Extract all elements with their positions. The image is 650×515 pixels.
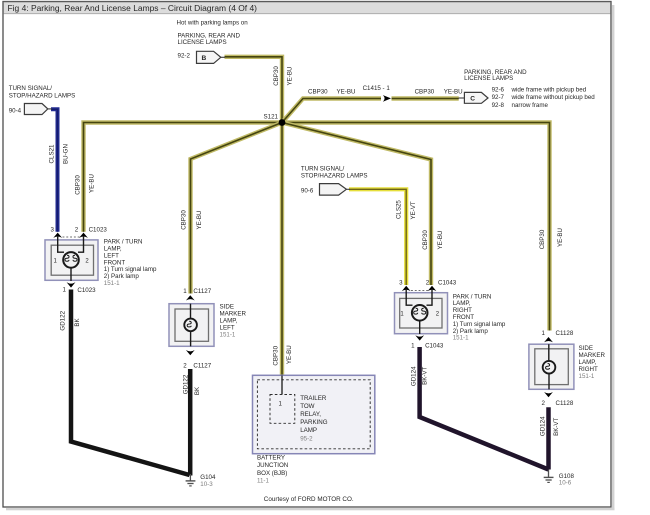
svg-text:1: 1 (542, 330, 546, 337)
svg-text:BU-GN: BU-GN (63, 144, 70, 164)
svg-text:LEFT: LEFT (220, 324, 235, 331)
park/turn lamp right front box (395, 289, 448, 334)
svg-text:95-2: 95-2 (300, 435, 313, 442)
rotated wire labels GD124 BK-VT (right front) (411, 366, 429, 386)
svg-text:90-4: 90-4 (9, 107, 22, 114)
pin labels 3 2 C1043 top (399, 280, 457, 287)
wire CBP30 YE-BU: splice S121 left branch to C1023 pin 2 (84, 123, 283, 232)
svg-text:C: C (470, 95, 475, 102)
label side marker lamp right (579, 345, 606, 380)
labels CBP30 YE-BU C1415-1 on horizontal wire (308, 85, 463, 95)
svg-text:S121: S121 (264, 114, 279, 121)
wire CBP30 YE-BU: connector B to splice S121 (225, 57, 283, 123)
svg-text:YE-VT: YE-VT (410, 201, 417, 219)
svg-text:YE-BU: YE-BU (444, 88, 463, 95)
svg-text:LAMP,: LAMP, (220, 317, 238, 324)
label G108 10-6 (559, 473, 575, 487)
svg-text:YE-BU: YE-BU (557, 228, 564, 247)
rotated wire labels GD124 BK-VT (side marker right) (540, 416, 561, 436)
rotated wire labels CBP30 YE-BU (BJB drop) (272, 345, 293, 365)
svg-text:2: 2 (542, 400, 546, 407)
connector 90-6 (301, 184, 350, 196)
svg-text:1: 1 (183, 288, 187, 295)
svg-text:1: 1 (411, 343, 415, 350)
svg-text:BK-VT: BK-VT (553, 417, 560, 435)
label G104 10-3 (200, 474, 216, 488)
side marker lamp left box (169, 304, 214, 347)
svg-text:C1127: C1127 (193, 288, 211, 295)
wire CBP30 YE-BU: splice S121 right branch to C1128 side marker right (282, 123, 550, 331)
svg-text:10-6: 10-6 (559, 480, 572, 487)
wire CBP30 YE-BU: splice S121 diagonal to C1127 side marker left (191, 123, 283, 294)
pin labels 1 C1023 bottom (63, 287, 97, 294)
svg-text:JUNCTION: JUNCTION (257, 462, 288, 469)
wire CLS25 YE-VT: connector 90-6 to C1043 pin 3 (349, 189, 406, 285)
svg-text:151-1: 151-1 (104, 280, 120, 287)
svg-text:MARKER: MARKER (579, 352, 606, 359)
ground G108 (544, 470, 554, 483)
svg-text:YE-BU: YE-BU (89, 174, 96, 193)
svg-text:LAMP: LAMP (300, 427, 317, 434)
connector C1023 top arrows and mating line (53, 233, 88, 238)
svg-text:TURN SIGNAL/: TURN SIGNAL/ (301, 165, 345, 172)
svg-text:90-6: 90-6 (301, 187, 314, 194)
wire GD122 BK: left front lamp C1023 pin 1 to ground G104 (71, 290, 190, 476)
label parking rear and license lamps (top) (178, 33, 241, 47)
svg-text:CBP30: CBP30 (539, 229, 546, 249)
svg-text:PARKING: PARKING (300, 419, 328, 426)
label trailer tow relay parking lamp (300, 395, 328, 443)
right front lamp bottom exit arrow (415, 321, 424, 341)
rotated wire labels CBP30 YE-BU (side marker left drop) (180, 210, 203, 230)
svg-text:TURN SIGNAL/: TURN SIGNAL/ (9, 85, 53, 92)
svg-text:CBP30: CBP30 (308, 88, 328, 95)
rotated wire labels CBP30 YE-BU (right branch) (539, 228, 564, 249)
svg-text:BOX (BJB): BOX (BJB) (257, 470, 287, 477)
rotated wire labels GD122 BK (left front) (59, 310, 80, 330)
svg-text:151-1: 151-1 (579, 373, 595, 380)
side marker right bottom exit arrow (544, 374, 553, 398)
svg-text:CBP30: CBP30 (415, 88, 435, 95)
svg-text:wide frame without pickup bed: wide frame without pickup bed (511, 94, 596, 101)
svg-text:GD122: GD122 (59, 310, 66, 330)
svg-text:C1415 - 1: C1415 - 1 (363, 85, 391, 92)
wire GD122 BK: side marker left C1127 pin 2 to ground G104 (188, 369, 193, 476)
rotated wire labels CLS21 BU-GN (49, 144, 70, 164)
pin labels 2 C1128 bottom (542, 400, 574, 407)
label turn signal / stop hazard lamps (right) (301, 165, 368, 179)
svg-text:LICENSE LAMPS: LICENSE LAMPS (178, 39, 227, 46)
rotated wire labels CBP30 YE-BU (left branch) (74, 174, 95, 195)
svg-text:CBP30: CBP30 (180, 210, 187, 230)
label battery junction box (257, 455, 288, 485)
wire CLS21 BU-GN: connector 90-4 to C1023 pin 3 (51, 109, 58, 232)
svg-text:C1043: C1043 (438, 280, 457, 287)
ground G104 (186, 474, 196, 486)
svg-text:92-2: 92-2 (178, 53, 191, 60)
svg-text:CBP30: CBP30 (272, 345, 279, 365)
svg-text:2: 2 (183, 362, 187, 369)
svg-text:BK: BK (194, 386, 201, 395)
bulb dual filament right front (412, 305, 428, 321)
svg-text:BK-VT: BK-VT (422, 366, 429, 384)
svg-text:2: 2 (426, 280, 430, 287)
connector C1127 top arrow (186, 295, 195, 300)
svg-text:C1128: C1128 (556, 330, 574, 337)
pin 1 and pin 2 labels inside left front lamp (54, 259, 90, 265)
splice S121 (264, 114, 286, 126)
svg-text:C1043: C1043 (425, 343, 444, 350)
svg-text:Hot with parking lamps on: Hot with parking lamps on (177, 19, 249, 26)
svg-text:YE-BU: YE-BU (286, 345, 293, 364)
label turn signal / stop hazard lamps (left) (9, 85, 76, 99)
svg-text:B: B (202, 55, 207, 62)
label park/turn lamp right front (453, 293, 506, 341)
label park/turn lamp left front (104, 239, 157, 287)
side marker lamp right box (529, 344, 574, 389)
svg-text:GD124: GD124 (411, 366, 418, 386)
svg-text:SIDE: SIDE (220, 303, 234, 310)
labels 92-6 92-7 92-8 frame variants (492, 87, 596, 109)
label side marker lamp left (220, 303, 247, 338)
svg-text:CBP30: CBP30 (273, 66, 280, 86)
svg-text:151-1: 151-1 (220, 331, 236, 338)
title bar (4, 2, 611, 14)
connector C (92-6 / 92-7 / 92-8) (459, 92, 489, 103)
battery junction box (BJB) (253, 375, 375, 453)
pin labels 1 C1127 top (183, 288, 211, 295)
svg-text:10-3: 10-3 (200, 481, 213, 488)
svg-text:LICENSE LAMPS: LICENSE LAMPS (464, 75, 513, 82)
svg-text:narrow frame: narrow frame (512, 102, 549, 109)
connector C1128 top arrow (544, 337, 553, 342)
svg-text:C1128: C1128 (556, 400, 574, 407)
pin 1 and pin 2 labels inside right front lamp (400, 312, 439, 318)
pin labels 1 C1128 top (542, 330, 574, 337)
svg-text:C1127: C1127 (193, 362, 211, 369)
svg-text:RIGHT: RIGHT (579, 366, 598, 373)
svg-text:MARKER: MARKER (220, 310, 247, 317)
svg-text:CBP30: CBP30 (422, 230, 429, 250)
trailer tow relay parking lamp box, pin 1 (270, 376, 295, 424)
svg-text:2: 2 (75, 226, 79, 233)
side marker left bottom exit arrow (186, 331, 195, 355)
svg-text:BATTERY: BATTERY (257, 455, 285, 462)
svg-text:GD122: GD122 (183, 374, 190, 394)
svg-text:1: 1 (278, 401, 282, 408)
svg-text:92-6: 92-6 (492, 87, 505, 94)
left front lamp bottom exit arrow (67, 268, 76, 288)
svg-text:YE-BU: YE-BU (196, 211, 203, 230)
svg-text:1: 1 (63, 287, 67, 294)
svg-text:3: 3 (399, 280, 403, 287)
connector 90-4 (9, 104, 52, 115)
svg-text:C1023: C1023 (77, 287, 96, 294)
pin labels 1 C1043 bottom (411, 343, 444, 350)
svg-text:SIDE: SIDE (579, 345, 593, 352)
connector B (92-2) (178, 51, 226, 63)
svg-text:92-7: 92-7 (492, 94, 505, 101)
svg-text:TRAILER: TRAILER (300, 395, 327, 402)
rotated wire labels CLS25 YE-VT (396, 200, 418, 220)
svg-text:STOP/HAZARD LAMPS: STOP/HAZARD LAMPS (301, 172, 368, 179)
rotated wire labels CBP30 YE-BU (B drop) (273, 66, 294, 86)
connector C1043 top arrows and mating line (402, 286, 437, 291)
svg-text:3: 3 (51, 226, 55, 233)
svg-text:STOP/HAZARD LAMPS: STOP/HAZARD LAMPS (9, 92, 76, 99)
svg-text:Fig 4: Parking, Rear And Licen: Fig 4: Parking, Rear And License Lamps –… (8, 3, 258, 13)
svg-text:CLS25: CLS25 (396, 200, 403, 219)
svg-text:BK: BK (74, 318, 81, 327)
wire CBP30 YE-BU: splice S121 down to trailer tow relay in BJB (280, 123, 284, 375)
bulb single filament side marker right (543, 361, 556, 374)
pin labels 2 C1127 bottom (183, 362, 211, 369)
svg-text:GD124: GD124 (540, 416, 547, 436)
svg-text:C1023: C1023 (89, 226, 108, 233)
wire CBP30 YE-BU: splice S121 diagonal to C1043 pin 2 (282, 123, 431, 286)
svg-text:YE-BU: YE-BU (286, 67, 293, 86)
svg-text:YE-BU: YE-BU (437, 231, 444, 250)
wire GD124 BK-VT: right front lamp C1043 pin 1 to ground G108 (420, 347, 549, 470)
svg-text:CBP30: CBP30 (74, 175, 81, 195)
wire GD124 BK-VT: side marker right C1128 pin 2 to ground G108 (546, 407, 551, 469)
svg-text:CLS21: CLS21 (49, 144, 56, 163)
svg-text:RELAY,: RELAY, (300, 411, 321, 418)
bulb dual filament left front (63, 252, 79, 268)
park/turn lamp left front box (45, 236, 98, 280)
svg-text:TOW: TOW (300, 403, 314, 410)
svg-text:Courtesy of FORD MOTOR CO.: Courtesy of FORD MOTOR CO. (264, 496, 354, 503)
wire CBP30 YE-BU: splice S121 to inline connector C1415 (282, 99, 381, 123)
label parking rear and license lamps (right) (464, 69, 527, 82)
svg-text:YE-BU: YE-BU (337, 88, 356, 95)
svg-text:11-1: 11-1 (257, 478, 269, 485)
svg-text:151-1: 151-1 (453, 335, 469, 342)
bulb single filament side marker left (184, 319, 197, 332)
rotated wire labels CBP30 YE-BU (right front drop) (422, 230, 444, 250)
svg-text:LAMP,: LAMP, (579, 359, 597, 366)
svg-text:92-8: 92-8 (492, 102, 505, 109)
inline connector C1415-1 arrow (383, 95, 391, 102)
pin labels 3 2 C1023 top (51, 226, 108, 233)
rotated wire labels GD122 BK (side marker left) (183, 374, 201, 395)
svg-text:wide frame with pickup bed: wide frame with pickup bed (511, 87, 587, 94)
wire CBP30 YE-BU: inline connector C1415 to connector C (392, 96, 459, 100)
